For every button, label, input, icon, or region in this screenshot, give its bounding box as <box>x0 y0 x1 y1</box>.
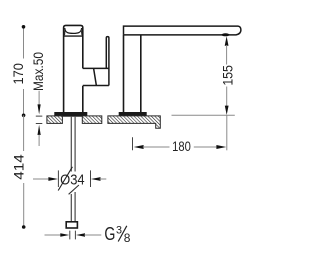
dim Max.50 upper arrow <box>38 91 40 105</box>
svg-text:170: 170 <box>11 63 26 85</box>
dim 414 line <box>23 115 25 227</box>
dim 180 right extension <box>226 116 228 151</box>
spout <box>124 26 241 35</box>
dim Max.50 lower arrow <box>38 125 41 135</box>
supply hose lower <box>71 192 75 222</box>
dim G3/8 left arrow <box>45 234 62 236</box>
svg-text:3: 3 <box>116 225 122 237</box>
supply hose upper <box>71 116 75 172</box>
dim O34 left arrow <box>33 178 50 180</box>
lever foot <box>94 68 97 85</box>
svg-text:155: 155 <box>221 65 236 86</box>
hose end fitting <box>66 222 77 228</box>
aerator <box>222 35 230 36</box>
dim G3/8 slash <box>118 226 127 242</box>
dim Max.50 ticks <box>36 116 43 123</box>
dim O34 left tick <box>57 170 59 187</box>
svg-text:414: 414 <box>11 154 26 180</box>
faucet body U1 (front view) <box>64 25 83 113</box>
cap dish arc <box>65 28 82 33</box>
dim 170 line <box>23 27 25 116</box>
svg-text:Max.50: Max.50 <box>31 52 46 91</box>
dim 155 bottom arrow <box>226 87 228 107</box>
cap bottom line <box>64 35 83 37</box>
base flange left <box>55 113 87 116</box>
svg-text:G: G <box>104 223 115 244</box>
cartridge block <box>83 68 109 85</box>
dim O34 slash <box>58 167 72 191</box>
countertop left slab A <box>47 116 63 124</box>
hose break diagonal <box>69 185 79 194</box>
dim 414 end dot <box>22 225 26 229</box>
dim O34 right tick <box>90 170 92 187</box>
dim 155 top arrow <box>225 36 229 46</box>
svg-text:8: 8 <box>124 231 131 245</box>
lever handle <box>106 37 109 86</box>
countertop right slab with edge step <box>108 116 160 128</box>
dim 180 left arrow <box>134 145 144 149</box>
dim 180 right arrow <box>194 146 219 148</box>
dim O34 right arrow <box>91 177 101 181</box>
base flange right <box>119 113 146 116</box>
dim 155 extension line <box>172 114 235 116</box>
dim G3/8 ticks <box>70 231 76 240</box>
dim G3/8 right arrow <box>76 233 85 237</box>
dim 180 left tick <box>132 137 134 150</box>
spout column (side view) <box>124 35 141 113</box>
svg-text:180: 180 <box>172 138 191 154</box>
countertop left slab B <box>82 116 102 124</box>
dim 170 end dots <box>22 25 26 29</box>
cap corner ticks <box>65 30 82 35</box>
